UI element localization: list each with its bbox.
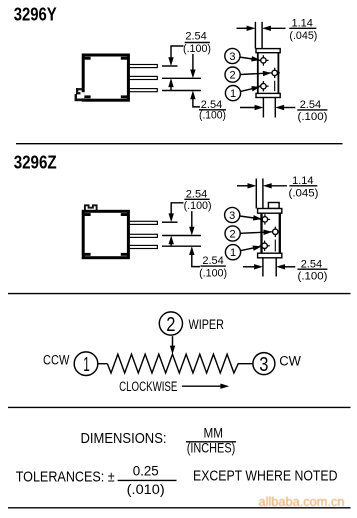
svg-text:(.100): (.100) xyxy=(183,43,211,55)
svg-text:(.100): (.100) xyxy=(184,200,212,212)
svg-text:3: 3 xyxy=(229,210,235,222)
svg-text:(.100): (.100) xyxy=(199,268,227,280)
svg-text:(.100): (.100) xyxy=(298,270,328,282)
svg-text:(.100): (.100) xyxy=(199,110,226,122)
svg-text:0.25: 0.25 xyxy=(133,463,159,479)
svg-text:TOLERANCES: ±: TOLERANCES: ± xyxy=(16,468,115,485)
svg-text:3296Y: 3296Y xyxy=(14,5,57,25)
svg-text:DIMENSIONS:: DIMENSIONS: xyxy=(81,430,167,447)
svg-text:EXCEPT WHERE NOTED: EXCEPT WHERE NOTED xyxy=(193,468,338,485)
svg-text:2: 2 xyxy=(230,70,236,82)
svg-text:CW: CW xyxy=(279,354,301,369)
svg-text:2: 2 xyxy=(230,229,236,241)
svg-text:3: 3 xyxy=(229,51,235,63)
svg-text:MM: MM xyxy=(203,425,223,441)
svg-text:1: 1 xyxy=(83,354,90,376)
svg-text:3: 3 xyxy=(259,354,268,376)
svg-text:1: 1 xyxy=(230,247,236,259)
svg-text:(.045): (.045) xyxy=(289,188,319,200)
svg-text:CCW: CCW xyxy=(43,353,70,368)
svg-text:(.010): (.010) xyxy=(127,482,165,497)
svg-text:2.54: 2.54 xyxy=(185,30,206,42)
svg-text:2.54: 2.54 xyxy=(300,99,321,111)
svg-text:(INCHES): (INCHES) xyxy=(187,441,236,456)
svg-text:(.045): (.045) xyxy=(289,30,317,42)
svg-text:(.100): (.100) xyxy=(298,111,328,123)
svg-text:1: 1 xyxy=(230,88,236,100)
svg-text:allbaba.com.cn: allbaba.com.cn xyxy=(259,494,345,509)
svg-text:2: 2 xyxy=(166,314,175,336)
svg-text:3296Z: 3296Z xyxy=(14,152,57,172)
svg-text:WIPER: WIPER xyxy=(189,317,225,332)
svg-text:CLOCKWISE: CLOCKWISE xyxy=(119,379,177,394)
